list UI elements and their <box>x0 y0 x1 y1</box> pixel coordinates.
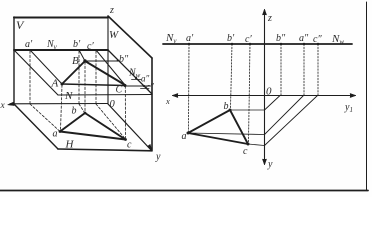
point b <box>84 112 87 115</box>
svg-text:x: x <box>0 101 6 111</box>
point c' (epure) <box>249 43 251 45</box>
svg-text:c: c <box>127 140 132 151</box>
point a <box>59 130 62 133</box>
svg-text:c′: c′ <box>87 41 94 52</box>
svg-text:a: a <box>182 131 187 142</box>
svg-text:C: C <box>116 85 123 96</box>
svg-text:B: B <box>72 55 79 67</box>
point a'' on trace <box>135 77 137 79</box>
projector b'' down to axis <box>280 44 282 96</box>
svg-text:c′: c′ <box>245 34 252 45</box>
svg-text:b: b <box>72 106 77 117</box>
dashed projector a' down to x axis <box>29 51 31 104</box>
svg-text:a′: a′ <box>186 33 194 44</box>
page bottom rule <box>0 190 368 192</box>
trace line Nw (left diagram) <box>108 50 152 94</box>
projecting ray a' to A <box>30 50 62 84</box>
x axis (left diagram) <box>10 103 108 105</box>
transfer diagonal for b <box>265 96 281 111</box>
point a'' (epure) <box>303 43 305 45</box>
svg-text:a′: a′ <box>25 39 33 50</box>
plane W right edge <box>151 58 153 150</box>
dashed bend a' foot to a <box>30 104 60 131</box>
svg-text:b′: b′ <box>73 39 81 50</box>
svg-text:b″: b″ <box>119 54 129 65</box>
point a' (epure) <box>188 43 190 45</box>
y1 axis arrowhead <box>350 93 356 97</box>
triangle edge a-b (horizontal projection) <box>60 113 85 132</box>
svg-text:W: W <box>109 29 119 41</box>
point c <box>124 138 127 141</box>
dashed bend c' foot to c <box>96 104 125 139</box>
tick at a'' <box>132 79 142 81</box>
page right border <box>366 2 368 190</box>
projector a'' down to axis <box>303 44 305 96</box>
svg-text:c″: c″ <box>313 34 322 45</box>
y axis arrowhead <box>262 159 266 165</box>
svg-text:0: 0 <box>266 86 272 98</box>
triangle edge b-c (horizontal projection) <box>85 113 126 140</box>
svg-text:c″: c″ <box>146 82 154 92</box>
triangle edge b-c (epure) <box>230 110 248 144</box>
dashed projector b' down to x axis <box>78 51 80 104</box>
y axis arrowhead <box>147 144 152 150</box>
point b'' (epure) <box>280 43 282 45</box>
svg-text:V: V <box>16 18 25 32</box>
dashed projector A down to a <box>61 85 63 131</box>
svg-text:Nw: Nw <box>331 33 344 46</box>
z axis arrowhead <box>262 9 266 15</box>
triangle edge a-c (epure) <box>188 133 248 144</box>
projector c'' down to axis <box>317 44 319 96</box>
y axis (right diagram) <box>264 96 266 165</box>
plane W top edge <box>108 16 152 58</box>
triangle edge A-B <box>62 61 85 84</box>
svg-text:N: N <box>64 90 73 102</box>
transfer stub from c to y axis <box>248 144 265 146</box>
transfer stub from a to y axis <box>188 133 265 135</box>
svg-text:y1: y1 <box>344 102 353 114</box>
plane N front edge <box>58 94 152 97</box>
z axis (left diagram) <box>107 16 109 104</box>
svg-text:b″: b″ <box>276 33 286 44</box>
point b (epure) <box>229 109 232 112</box>
svg-text:c: c <box>243 146 248 157</box>
plane N left edge <box>14 50 58 95</box>
point c'' on trace <box>143 85 145 87</box>
svg-text:a″: a″ <box>299 33 309 44</box>
plane V left edge <box>13 17 15 104</box>
projector c' down to c <box>249 44 251 143</box>
svg-text:Nw: Nw <box>128 68 141 80</box>
svg-text:0: 0 <box>110 99 116 110</box>
triangle edge A-C <box>62 84 125 86</box>
svg-text:A: A <box>51 78 59 90</box>
svg-text:Nv: Nv <box>165 32 177 45</box>
svg-text:b: b <box>224 101 229 112</box>
svg-text:z: z <box>109 5 114 16</box>
transfer stub from b to y axis <box>230 109 265 111</box>
projector a' down to a <box>188 44 191 133</box>
trace line Nv-Nw (right diagram) <box>163 43 352 45</box>
transfer diagonal for a <box>265 96 304 135</box>
y1 axis (right diagram) <box>265 95 356 97</box>
trace line Nv (left diagram) <box>14 49 108 51</box>
x axis arrowhead <box>172 93 178 97</box>
point c (epure) <box>247 143 250 146</box>
svg-text:x: x <box>165 96 170 106</box>
tick at c'' <box>141 88 150 90</box>
dashed projector C down to c <box>124 86 126 138</box>
y axis (left diagram) <box>108 104 151 150</box>
transfer diagonal for c <box>265 96 318 146</box>
point c'' (epure) <box>317 43 319 45</box>
point A <box>61 83 64 86</box>
svg-text:a: a <box>53 129 58 140</box>
svg-text:H: H <box>65 139 75 151</box>
connector B to b'' <box>86 60 118 62</box>
triangle edge B-C <box>85 61 125 85</box>
plane V top edge <box>14 17 108 19</box>
z axis (right diagram) <box>264 10 266 96</box>
projecting ray b' to B <box>79 50 85 61</box>
x axis (right diagram) <box>173 95 265 97</box>
plane H left edge <box>14 104 58 149</box>
dashed bend b' foot to b <box>79 104 85 113</box>
point b' (epure) <box>231 43 233 45</box>
dashed projector B down to b <box>84 62 86 112</box>
plane H front edge <box>58 149 152 151</box>
svg-text:y: y <box>267 159 273 170</box>
svg-text:Nv: Nv <box>46 39 58 51</box>
svg-text:b′: b′ <box>227 33 235 44</box>
point b'' on trace <box>117 59 119 61</box>
point a (epure) <box>187 132 190 135</box>
triangle edge a-b (epure) <box>188 110 230 133</box>
projecting ray c' to C <box>96 50 125 85</box>
connector C to c'' <box>126 85 151 87</box>
dashed projector c' down to x axis <box>95 51 97 104</box>
svg-text:z: z <box>267 13 272 24</box>
triangle edge a-c (horizontal projection) <box>60 132 126 140</box>
svg-text:y: y <box>155 152 161 163</box>
point B <box>83 59 86 62</box>
point C <box>124 84 127 87</box>
projector b' down to b <box>231 44 233 109</box>
x axis arrowhead <box>8 102 15 106</box>
